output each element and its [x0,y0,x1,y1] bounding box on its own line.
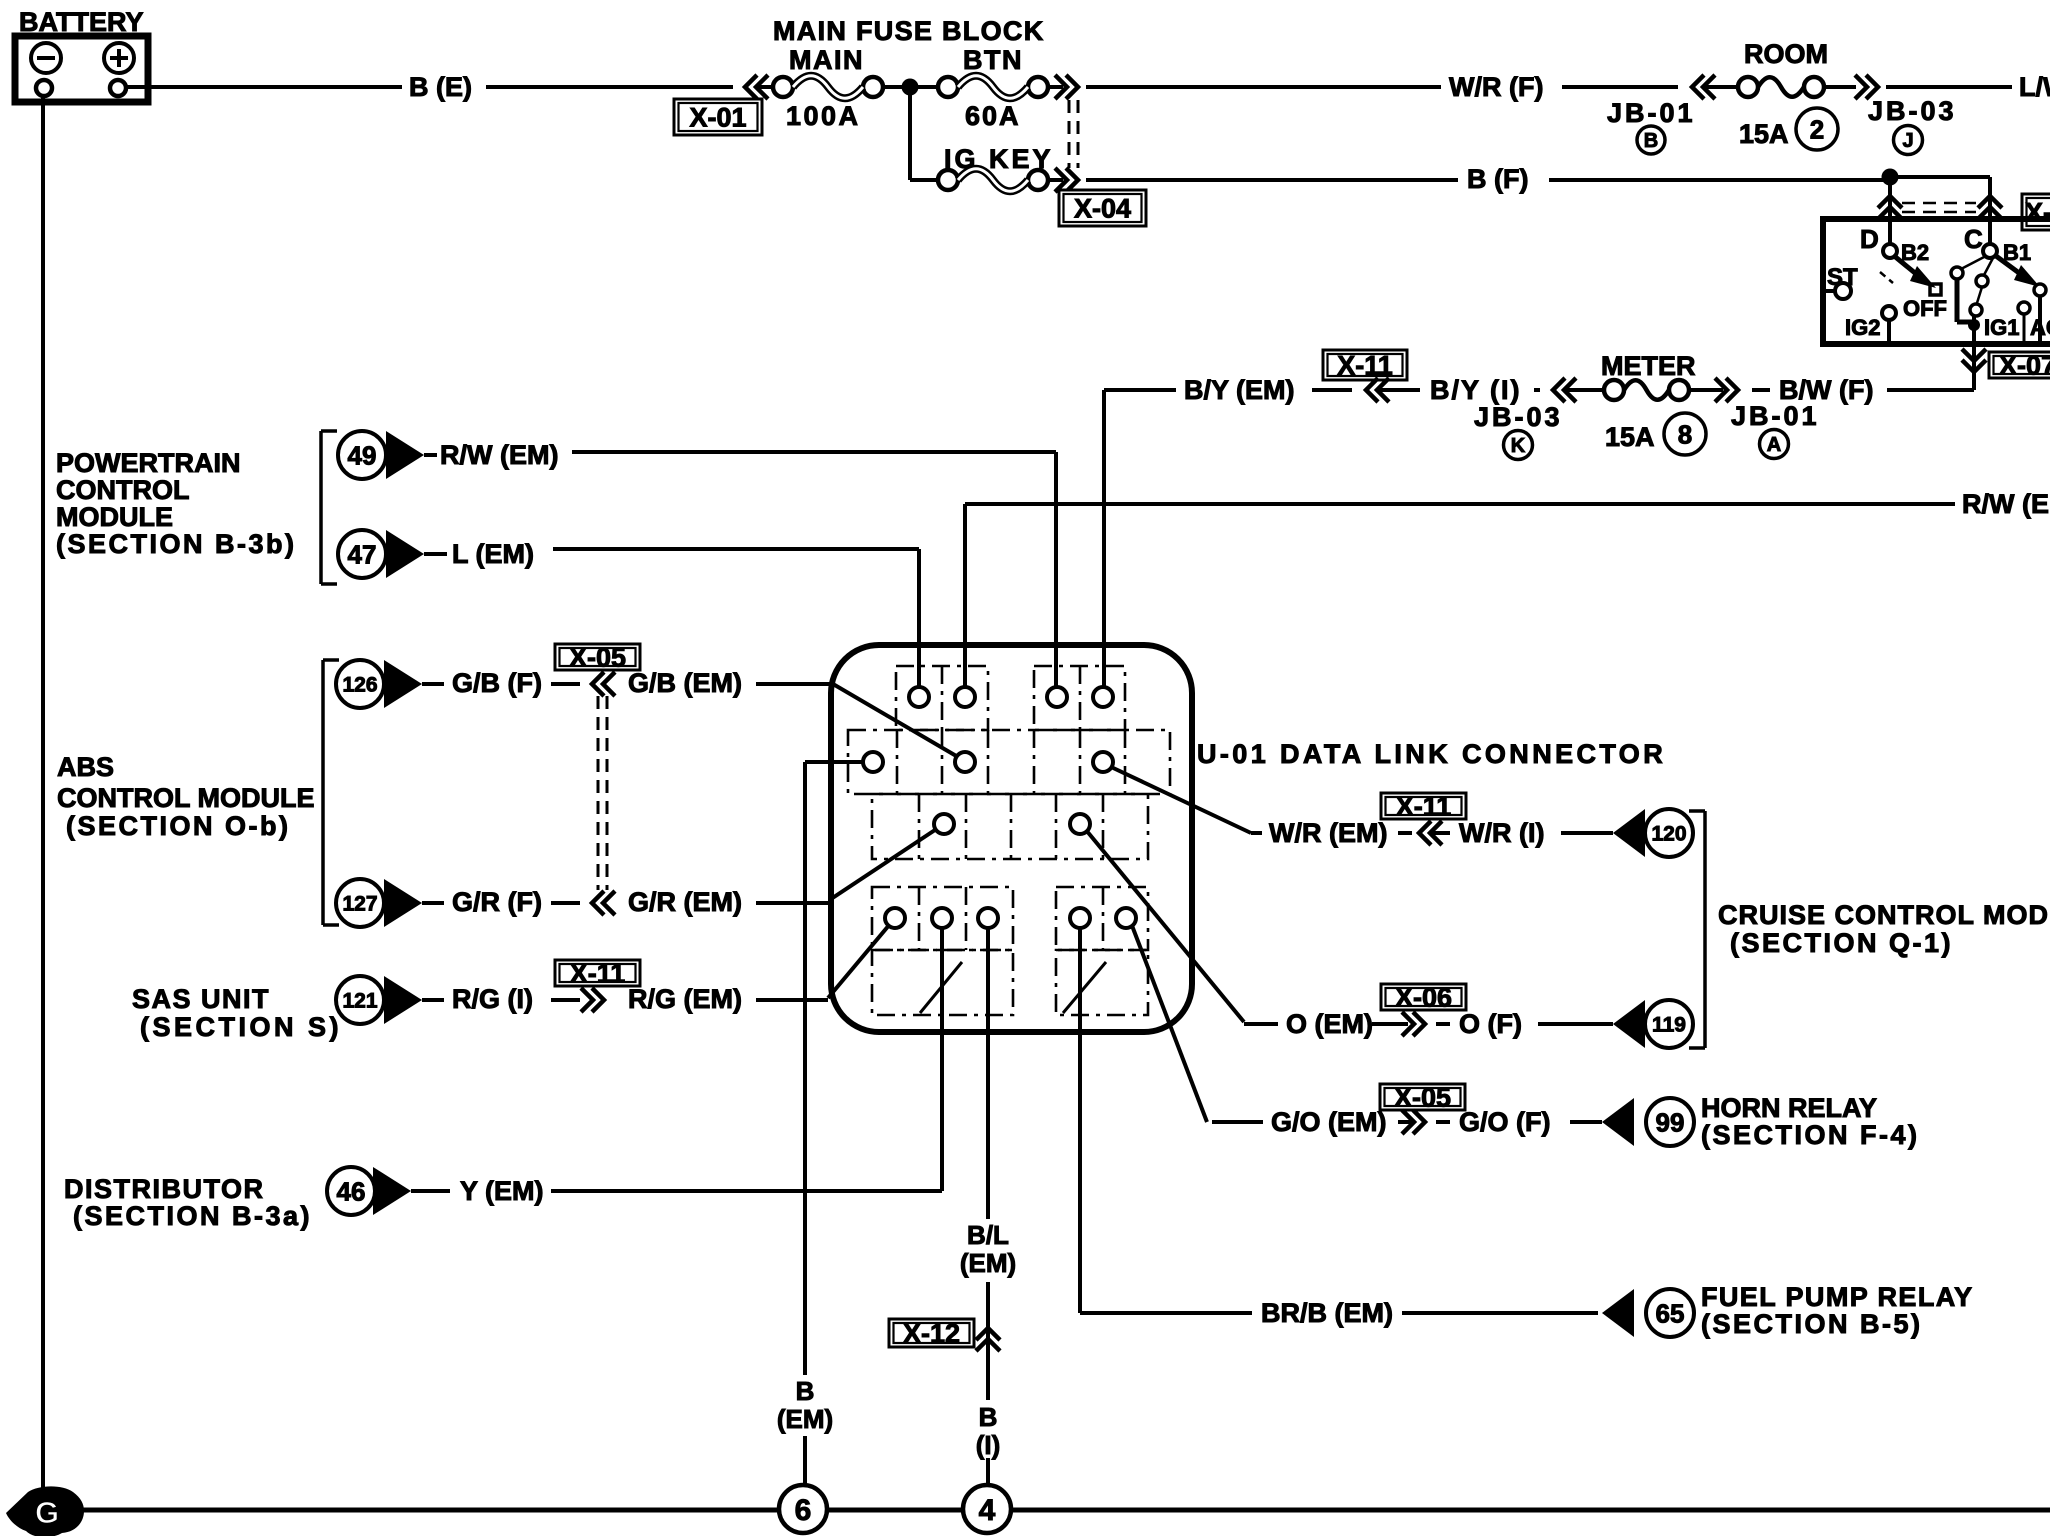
svg-text:(EM): (EM) [777,1404,833,1434]
svg-text:D: D [1860,224,1879,254]
svg-text:99: 99 [1656,1107,1685,1137]
svg-text:B: B [1644,130,1658,152]
svg-text:X-01: X-01 [689,103,746,133]
svg-text:L/W: L/W [2019,72,2050,102]
svg-text:BTN: BTN [963,45,1023,75]
svg-text:A: A [1767,434,1781,456]
svg-text:C: C [1964,224,1983,254]
svg-text:B/L: B/L [967,1220,1009,1250]
svg-text:ABS: ABS [57,752,114,782]
svg-text:15A: 15A [1605,422,1655,452]
svg-text:X-07: X-07 [1999,351,2050,381]
svg-text:CRUISE CONTROL MODULE: CRUISE CONTROL MODULE [1718,900,2050,930]
svg-text:G/R (F): G/R (F) [452,887,542,917]
svg-text:ACC: ACC [2030,315,2050,340]
svg-text:X-11: X-11 [570,959,626,989]
svg-text:(SECTION Q-1): (SECTION Q-1) [1730,928,1953,958]
svg-text:MODULE: MODULE [56,502,173,532]
svg-text:DISTRIBUTOR: DISTRIBUTOR [64,1174,265,1204]
svg-text:HORN RELAY: HORN RELAY [1701,1093,1877,1123]
svg-text:MAIN: MAIN [789,45,864,75]
svg-text:(EM): (EM) [960,1248,1016,1278]
svg-text:IG1: IG1 [1984,315,2019,340]
svg-text:46: 46 [337,1176,366,1206]
svg-text:G/B (EM): G/B (EM) [628,668,742,698]
svg-text:X-04: X-04 [1074,194,1131,224]
svg-text:G: G [35,1495,59,1530]
svg-text:G/O (F): G/O (F) [1459,1107,1550,1137]
svg-text:CONTROL: CONTROL [56,475,189,505]
svg-text:CONTROL MODULE: CONTROL MODULE [57,783,315,813]
svg-text:JB-01: JB-01 [1607,98,1696,128]
svg-text:(SECTION F-4): (SECTION F-4) [1701,1120,1920,1150]
svg-text:JB-03: JB-03 [1474,402,1563,432]
svg-text:B/Y (I): B/Y (I) [1430,375,1522,405]
svg-text:119: 119 [1652,1014,1686,1037]
svg-text:B (E): B (E) [409,72,472,102]
svg-text:121: 121 [342,990,377,1013]
svg-text:4: 4 [979,1494,996,1527]
svg-text:SAS UNIT: SAS UNIT [132,984,270,1014]
svg-text:O (EM): O (EM) [1286,1009,1373,1039]
svg-text:POWERTRAIN: POWERTRAIN [56,448,241,478]
svg-text:65: 65 [1656,1298,1685,1328]
svg-text:X-06: X-06 [1395,983,1452,1013]
svg-text:2: 2 [1810,114,1824,144]
svg-text:FUEL PUMP RELAY: FUEL PUMP RELAY [1701,1282,1974,1312]
svg-text:R/G (I): R/G (I) [452,984,533,1014]
svg-text:(I): (I) [976,1430,1001,1460]
svg-text:METER: METER [1601,351,1696,381]
svg-text:G/R (EM): G/R (EM) [628,887,742,917]
svg-text:IG2: IG2 [1845,315,1880,340]
svg-text:B (F): B (F) [1467,164,1528,194]
svg-text:ROOM: ROOM [1744,39,1828,69]
svg-text:L (EM): L (EM) [452,539,534,569]
svg-text:(SECTION S): (SECTION S) [140,1012,342,1042]
svg-text:JB-03: JB-03 [1868,96,1957,126]
svg-text:O (F): O (F) [1459,1009,1522,1039]
svg-text:B: B [979,1402,998,1432]
svg-text:60A: 60A [965,101,1021,131]
svg-text:8: 8 [1678,419,1692,449]
svg-text:B2: B2 [1901,240,1929,265]
svg-text:(SECTION B-3b): (SECTION B-3b) [56,529,297,559]
svg-text:G/B (F): G/B (F) [452,668,542,698]
svg-text:X-12: X-12 [903,1319,960,1349]
svg-text:(SECTION B-5): (SECTION B-5) [1701,1309,1923,1339]
svg-text:JB-01: JB-01 [1731,401,1820,431]
svg-text:BR/B (EM): BR/B (EM) [1261,1298,1393,1328]
svg-text:G/O (EM): G/O (EM) [1271,1107,1387,1137]
svg-text:127: 127 [342,893,377,916]
svg-text:W/R (I): W/R (I) [1459,818,1544,848]
svg-text:W/R (EM): W/R (EM) [1269,818,1387,848]
svg-text:X-11: X-11 [1396,792,1452,822]
svg-text:X-11: X-11 [1337,351,1393,381]
svg-text:(SECTION B-3a): (SECTION B-3a) [73,1201,312,1231]
svg-text:R/W (EM): R/W (EM) [1962,489,2050,519]
svg-text:100A: 100A [786,101,861,131]
svg-text:B: B [796,1376,815,1406]
svg-text:47: 47 [348,539,377,569]
svg-text:R/W (EM): R/W (EM) [440,440,558,470]
svg-text:MAIN FUSE BLOCK: MAIN FUSE BLOCK [773,16,1045,46]
svg-text:6: 6 [795,1494,812,1527]
svg-text:K: K [1511,435,1526,457]
svg-text:U-01 DATA LINK CONNECTOR: U-01 DATA LINK CONNECTOR [1197,739,1666,769]
svg-text:120: 120 [1651,823,1686,846]
svg-text:X-05: X-05 [569,643,626,673]
svg-text:B/Y (EM): B/Y (EM) [1184,375,1295,405]
svg-text:X-05: X-05 [1394,1083,1451,1113]
svg-text:X-08: X-08 [2025,198,2050,228]
svg-text:OFF: OFF [1903,296,1947,321]
svg-text:49: 49 [348,440,377,470]
svg-text:15A: 15A [1739,119,1789,149]
svg-text:R/G (EM): R/G (EM) [628,984,742,1014]
svg-text:J: J [1902,130,1913,152]
svg-text:Y (EM): Y (EM) [460,1176,544,1206]
svg-text:126: 126 [342,674,377,697]
svg-text:W/R (F): W/R (F) [1449,72,1543,102]
svg-text:(SECTION O-b): (SECTION O-b) [66,811,290,841]
